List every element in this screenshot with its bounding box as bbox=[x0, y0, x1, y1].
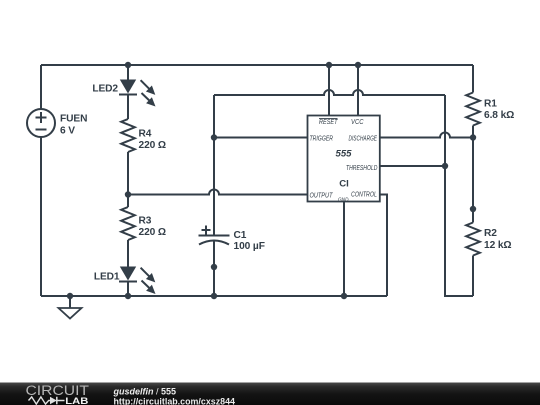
LED1 bbox=[119, 267, 156, 295]
wire LED2 to R4 bbox=[127, 95, 129, 120]
svg-text:http://circuitlab.com/cxsz844: http://circuitlab.com/cxsz844 bbox=[114, 397, 236, 405]
wire DISCHARGE pin with hop over threshold vertical bbox=[380, 133, 473, 138]
label R1 6.8 kohm bbox=[484, 98, 514, 121]
svg-text:R3: R3 bbox=[139, 216, 152, 227]
svg-text:12 kΩ: 12 kΩ bbox=[484, 240, 512, 251]
node discharge / R1 / R2 bbox=[470, 134, 476, 140]
svg-text:220 Ω: 220 Ω bbox=[139, 227, 167, 238]
svg-text:6 V: 6 V bbox=[60, 126, 75, 137]
label R3 220 ohm bbox=[139, 216, 167, 239]
svg-text:555: 555 bbox=[335, 149, 352, 160]
svg-text:OUTPUT: OUTPUT bbox=[310, 193, 334, 200]
wire THRESHOLD pin bbox=[380, 165, 445, 167]
wire GND pin down to ground rail bbox=[343, 202, 345, 297]
ground bbox=[59, 296, 82, 319]
svg-text:TRIGGER: TRIGGER bbox=[310, 135, 334, 142]
wire R2 to bottom bbox=[472, 256, 474, 297]
svg-text:CI: CI bbox=[339, 179, 349, 190]
wire right rail top to R1 bbox=[472, 65, 474, 93]
node top rail / LED2 bbox=[125, 62, 131, 68]
svg-text:CONTROL: CONTROL bbox=[351, 192, 377, 199]
voltage source FUEN bbox=[27, 109, 55, 137]
wire LED1 to bottom rail bbox=[127, 282, 129, 297]
pin label RESET with overline bbox=[319, 118, 338, 125]
wire R1 to R2 bbox=[472, 126, 474, 223]
wire VCC pin to top rail bbox=[357, 65, 359, 116]
wire left rail lower bbox=[40, 137, 42, 296]
label C1 100uF bbox=[234, 230, 265, 252]
svg-text:THRESHOLD: THRESHOLD bbox=[346, 165, 378, 172]
wire R4 to R3 through node bbox=[127, 152, 129, 207]
svg-text:gusdelfin / 555: gusdelfin / 555 bbox=[113, 387, 177, 397]
node threshold junction bbox=[442, 163, 448, 169]
wire top rail VCC net bbox=[41, 64, 473, 66]
svg-text:VCC: VCC bbox=[351, 119, 364, 126]
node C1 bottom lead bbox=[211, 264, 217, 270]
svg-text:220 Ω: 220 Ω bbox=[139, 140, 167, 151]
wire threshold top run with hops over reset and vcc bbox=[214, 90, 445, 95]
LED2 bbox=[119, 80, 156, 107]
node ground rail / LED1 bbox=[125, 293, 131, 299]
resistor R1 bbox=[466, 93, 480, 126]
node ground rail / ground symbol bbox=[67, 293, 73, 299]
svg-text:FUEN: FUEN bbox=[60, 114, 87, 125]
svg-text:R2: R2 bbox=[484, 228, 497, 239]
node R4 / R3 / output bbox=[125, 191, 131, 197]
svg-text:R4: R4 bbox=[139, 129, 152, 140]
CircuitLab logo wordmark bbox=[26, 383, 90, 405]
wire R3 to LED1 bbox=[127, 240, 129, 267]
svg-text:LED2: LED2 bbox=[92, 84, 118, 95]
label FUEN 6 V bbox=[60, 114, 87, 137]
resistor R4 bbox=[121, 119, 135, 152]
wire LED2 stub from top rail bbox=[127, 65, 129, 80]
svg-text:C1: C1 bbox=[234, 230, 247, 241]
node top rail / RESET bbox=[326, 62, 332, 68]
svg-text:DISCHARGE: DISCHARGE bbox=[349, 135, 378, 142]
wire TRIGGER pin bbox=[214, 137, 308, 139]
node ground rail / C1 bbox=[211, 293, 217, 299]
label R4 220 ohm bbox=[139, 129, 167, 152]
wire C1/trigger/threshold vertical bbox=[213, 95, 215, 235]
svg-text:LAB: LAB bbox=[65, 396, 88, 405]
svg-text:R1: R1 bbox=[484, 98, 497, 109]
wire threshold vertical down to R2 bottom bbox=[445, 95, 473, 296]
wire OUTPUT pin with hop over C1 vertical bbox=[128, 190, 308, 195]
resistor R3 bbox=[121, 207, 135, 240]
svg-text:LED1: LED1 bbox=[94, 272, 120, 283]
wire C1 to bottom rail bbox=[213, 241, 215, 296]
node trigger junction bbox=[211, 134, 217, 140]
node R2 top lead bbox=[470, 206, 476, 212]
resistor R2 bbox=[466, 223, 480, 256]
node ground rail / GND pin bbox=[341, 293, 347, 299]
op-amp U1 555 box bbox=[308, 116, 380, 202]
svg-text:100 µF: 100 µF bbox=[234, 241, 265, 252]
wire left rail upper bbox=[40, 65, 42, 109]
label R2 12 kohm bbox=[484, 228, 512, 251]
svg-text:6.8 kΩ: 6.8 kΩ bbox=[484, 110, 514, 121]
node top rail / VCC bbox=[355, 62, 361, 68]
wire RESET pin to top rail bbox=[328, 65, 330, 116]
wire bottom ground rail bbox=[41, 295, 387, 297]
svg-text:RESET: RESET bbox=[319, 119, 338, 126]
wire CONTROL pin down to ground rail bbox=[380, 195, 387, 297]
capacitor C1 bbox=[199, 226, 230, 245]
